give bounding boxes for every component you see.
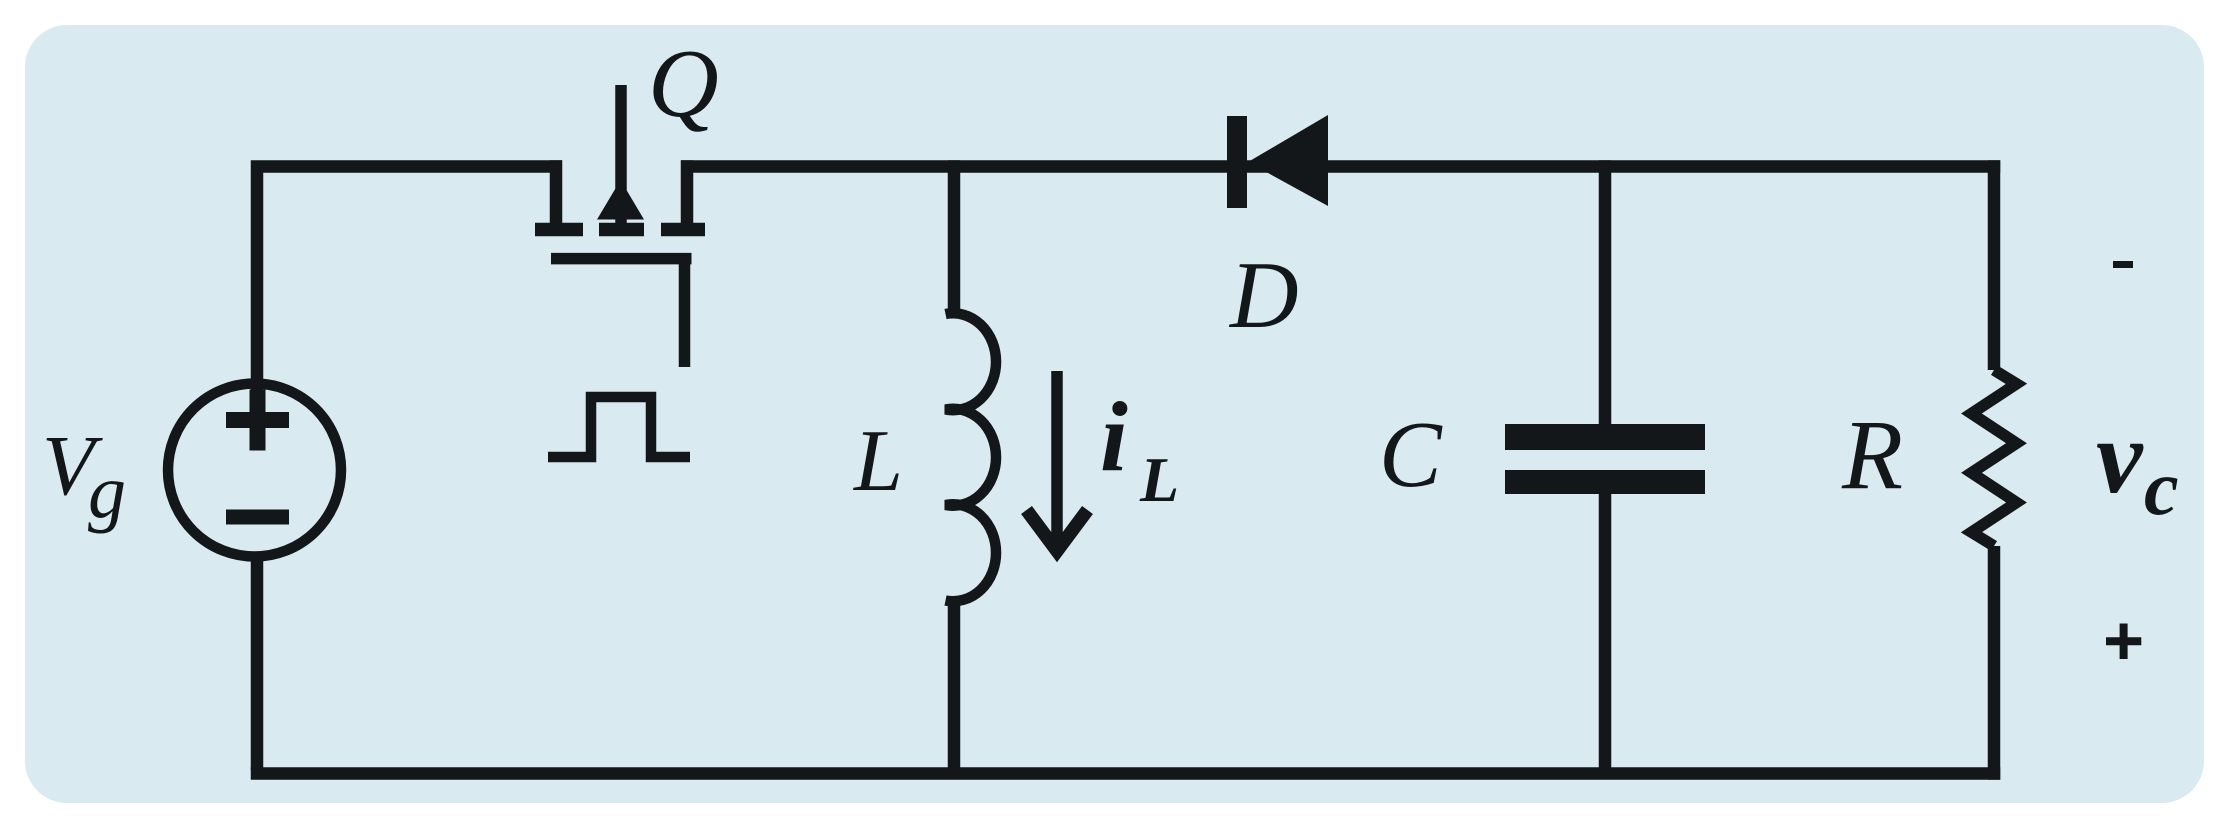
wire left vertical lower (Vg bottom to bottom wire)	[251, 553, 264, 770]
wire right vertical lower (resistor to bottom)	[1988, 546, 2001, 780]
output minus sign	[2113, 261, 2133, 268]
inductor L bottom lead	[948, 600, 961, 770]
inductor L coils	[946, 313, 997, 601]
resistor R zigzag	[1972, 370, 2017, 546]
svg-text:D: D	[1228, 242, 1299, 348]
wire top-right segment (MOSFET drain to resistor top corner)	[681, 160, 2000, 173]
wire top-left segment (Vg top to MOSFET source)	[257, 167, 562, 391]
diode D triangle	[1248, 115, 1328, 206]
source Vg circle	[168, 384, 341, 557]
diode D cathode bar	[1227, 116, 1247, 208]
transistor Q gate lead	[679, 259, 691, 367]
svg-text:c: c	[2144, 444, 2179, 531]
svg-text:i: i	[1100, 381, 1128, 492]
svg-text:R: R	[1841, 399, 1903, 510]
capacitor C top lead	[1599, 160, 1612, 424]
transistor Q gate plate	[551, 253, 692, 265]
svg-text:C: C	[1379, 403, 1443, 507]
transistor Q right drain stub	[681, 160, 694, 223]
svg-text:v: v	[2096, 398, 2144, 515]
transistor Q channel bars	[535, 223, 705, 237]
output plus sign	[2106, 624, 2141, 660]
transistor Q body line	[615, 85, 627, 223]
current iL arrow	[1027, 371, 1088, 552]
gate drive pulse symbol	[548, 397, 690, 457]
svg-text:L: L	[852, 413, 903, 510]
capacitor C plates	[1505, 424, 1705, 450]
transistor Q left source stub	[550, 160, 563, 223]
inductor L branch	[948, 160, 961, 317]
svg-text:Q: Q	[648, 30, 719, 138]
capacitor C bottom lead	[1599, 494, 1612, 770]
wire bottom	[251, 767, 2001, 780]
source plus sign	[226, 390, 289, 451]
svg-text:L: L	[1139, 444, 1179, 515]
svg-text:g: g	[88, 450, 126, 534]
transistor Q arrow	[597, 180, 644, 220]
wire right vertical upper (to resistor)	[1988, 160, 2001, 370]
source minus sign	[226, 510, 289, 525]
